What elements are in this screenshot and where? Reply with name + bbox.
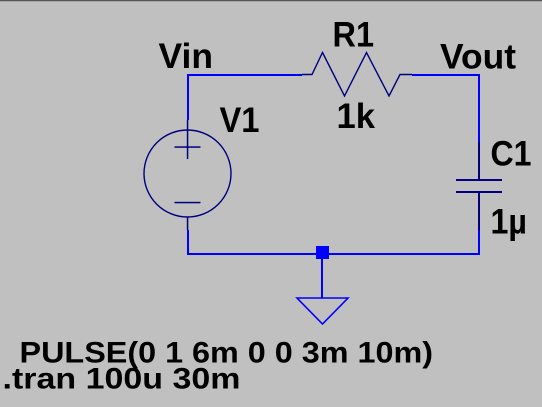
wire: right vertical upper (Vout corner down to C1 top pin) — [478, 74, 480, 142]
svg-text:1k: 1k — [337, 97, 376, 136]
svg-text:V1: V1 — [220, 101, 260, 140]
C1 bottom lead — [478, 192, 480, 230]
wire: bottom ground rail — [187, 253, 480, 255]
C1 bottom plate — [456, 191, 502, 193]
window top edge strip — [0, 0, 542, 1]
wire: right vertical lower (C1 bottom pin to ground rail) — [478, 230, 480, 255]
wire: left vertical (Vin corner down to V1 plus pin) — [187, 74, 189, 120]
V1 minus bar — [175, 202, 201, 204]
V1 plus horizontal bar — [175, 146, 201, 148]
resistor R1 body — [302, 53, 412, 97]
wire: ground stub (junction down to ground symbol) — [321, 259, 323, 298]
capacitor C1 top lead — [478, 142, 480, 180]
svg-text:1µ: 1µ — [491, 203, 528, 242]
ground symbol — [297, 298, 348, 324]
wire: left vertical lower (V1 minus pin to ground rail) — [187, 230, 189, 255]
voltage source V1 circle — [144, 130, 231, 217]
wire: top-left horizontal (Vin node to R1 left lead) — [187, 74, 302, 76]
svg-text:Vout: Vout — [440, 38, 516, 77]
node junction square on ground rail — [316, 246, 329, 259]
wire: top-right horizontal (R1 right lead to Vout corner) — [412, 74, 480, 76]
svg-text:R1: R1 — [333, 16, 375, 55]
C1 top plate — [456, 179, 502, 181]
svg-text:Vin: Vin — [159, 37, 214, 76]
svg-text:C1: C1 — [491, 135, 532, 174]
V1 top pin stub and plus vertical bar — [187, 120, 189, 159]
svg-text:.tran 100u 30m: .tran 100u 30m — [3, 363, 241, 396]
V1 bottom pin stub — [187, 217, 189, 231]
